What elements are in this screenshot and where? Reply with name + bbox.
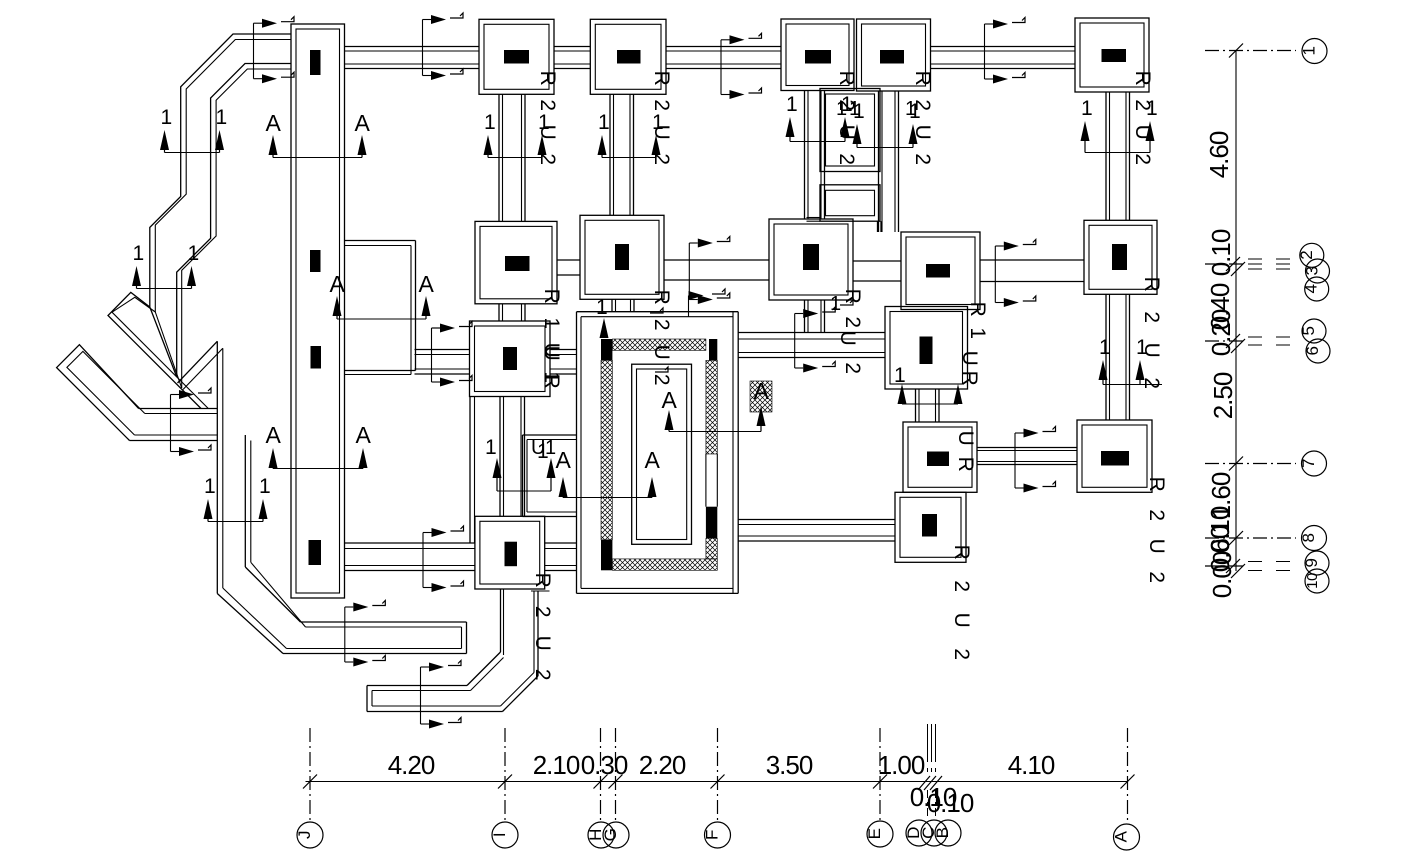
wall hook diagonals [467, 652, 501, 686]
grid line F vertical [717, 728, 719, 822]
grid bubble A [1114, 824, 1140, 850]
column strip mark 4 [309, 540, 322, 565]
svg-text:9: 9 [1302, 558, 1321, 567]
svg-text:2: 2 [650, 319, 673, 330]
wire finger wall upper [301, 621, 467, 623]
svg-text:2: 2 [950, 580, 973, 591]
svg-text:4.20: 4.20 [388, 750, 435, 780]
grid bubble 5 [1302, 319, 1326, 343]
section 1-1 pair below D3 [898, 384, 907, 404]
svg-text:2.20: 2.20 [639, 750, 686, 780]
svg-text:2: 2 [536, 153, 559, 164]
stair inner rect inner [637, 369, 687, 540]
section arrows on wall A3 west [431, 328, 433, 382]
column C2 outer [769, 219, 853, 300]
svg-text:J: J [295, 831, 314, 839]
svg-text:2: 2 [650, 374, 673, 385]
column B1 mark [617, 50, 641, 64]
svg-text:1: 1 [786, 93, 797, 116]
grid line 8 stub [1205, 537, 1296, 539]
grid tick G [609, 775, 623, 789]
svg-text:A: A [419, 271, 435, 297]
svg-text:3.50: 3.50 [766, 750, 813, 780]
svg-text:4.10: 4.10 [1008, 750, 1055, 780]
grid lines D C B cluster [927, 724, 929, 762]
wall hook corridor west [500, 589, 502, 652]
svg-text:2: 2 [1131, 99, 1154, 110]
stair hatch bottom band [612, 559, 717, 570]
svg-text:R: R [1140, 277, 1163, 292]
grid bubble D [906, 820, 932, 846]
grid line G vertical [615, 728, 617, 822]
wall A3 east to stair [550, 349, 577, 351]
wall C2 down to stair wall [804, 300, 806, 333]
svg-text:1: 1 [1081, 97, 1092, 120]
column E4 inner [1082, 425, 1147, 487]
grid bubble 8 [1302, 526, 1327, 551]
wall loop upper inner [826, 94, 875, 166]
svg-text:8: 8 [1299, 533, 1318, 542]
wall C1 down [804, 91, 806, 220]
section arrows on finger2 wall [420, 667, 422, 724]
column E2 inner [1089, 225, 1152, 289]
column A5 inner [480, 521, 540, 584]
wall A1 to B1 [554, 46, 590, 48]
svg-text:U: U [1140, 343, 1163, 358]
svg-text:R: R [531, 573, 554, 588]
stair hatch corner black NW [601, 339, 612, 360]
column D4 mark [927, 452, 949, 467]
svg-text:I: I [490, 833, 509, 837]
column A2 outer [475, 221, 557, 303]
wire zigzag outer wall upper [108, 34, 291, 409]
svg-text:U: U [1145, 539, 1168, 554]
svg-text:R: R [650, 71, 673, 86]
svg-text:1: 1 [905, 98, 916, 120]
grid bubble 4 [1305, 277, 1329, 301]
grid lines 2-3-4 cluster [1248, 258, 1262, 260]
wire checkmark inner wall [182, 69, 291, 388]
svg-text:2.50: 2.50 [1208, 372, 1238, 419]
grid bubble 2 [1300, 243, 1324, 267]
svg-text:2.10: 2.10 [533, 750, 580, 780]
svg-text:1: 1 [830, 293, 841, 315]
stair hatch corner black NE [709, 339, 717, 360]
svg-text:1: 1 [1300, 46, 1319, 55]
svg-text:U1: U1 [531, 437, 556, 459]
wall A2 to A3 [498, 304, 500, 321]
grid bubble 9 [1305, 551, 1329, 575]
svg-text:U: U [536, 125, 559, 140]
svg-text:R: R [540, 374, 563, 389]
grid ticks 9-10 [1226, 559, 1240, 573]
svg-text:R: R [650, 290, 673, 305]
column B2 inner [585, 220, 659, 294]
svg-text:R: R [536, 71, 559, 86]
wall loop lower outer [820, 185, 880, 221]
column B2 outer [580, 215, 664, 299]
grid line A vertical [1127, 728, 1129, 822]
grid line J vertical [309, 728, 311, 822]
svg-text:A: A [266, 110, 282, 136]
svg-text:1: 1 [894, 364, 905, 387]
grid line 1 stub [1205, 50, 1296, 52]
svg-text:U: U [531, 636, 554, 651]
column E4 outer [1077, 420, 1152, 492]
wall D4 to E4 [977, 447, 1077, 449]
column strip mark 1 [310, 50, 321, 75]
svg-text:1: 1 [484, 111, 495, 134]
wall E2 to E4 [1105, 294, 1107, 420]
column A2 mark [505, 256, 530, 271]
svg-text:6: 6 [1303, 346, 1322, 355]
svg-text:R: R [1145, 477, 1168, 492]
grid tick 1 [1229, 44, 1243, 58]
svg-text:2: 2 [536, 99, 559, 110]
grid bubble 1 [1302, 39, 1327, 64]
stair enclosure west wall [576, 312, 578, 594]
grid line E vertical [879, 728, 881, 822]
hatched pier with A mark [750, 381, 772, 412]
wall hook corridor east [533, 591, 535, 673]
svg-text:A: A [556, 447, 572, 473]
section arrows on wall strip-A5 [422, 533, 424, 588]
room south wall [523, 516, 578, 518]
svg-text:0.00: 0.00 [1207, 551, 1237, 598]
stair enclosure south wall [577, 592, 739, 594]
wall stair to D5 [738, 519, 895, 521]
column D5 mark [922, 514, 937, 537]
column D3 outer [885, 307, 968, 390]
svg-text:1: 1 [188, 242, 199, 265]
grid bubble B [935, 820, 961, 846]
column A1 outer [479, 19, 554, 94]
section arrows on wall B2-C2 [688, 243, 690, 300]
column strip inner [296, 29, 340, 593]
column D3 inner [890, 312, 963, 385]
svg-text:3: 3 [1303, 266, 1322, 275]
column E1 mark [1102, 49, 1127, 62]
svg-text:4.60: 4.60 [1204, 131, 1234, 178]
wire finger wall east cap [466, 622, 468, 654]
svg-text:2: 2 [650, 153, 673, 164]
grid tick A [1121, 775, 1135, 789]
section arrows at strip top wall [253, 23, 255, 78]
svg-text:A: A [645, 447, 661, 473]
wall B1 to C1 [666, 46, 781, 48]
column C1 inner [786, 24, 849, 86]
svg-text:A: A [356, 422, 372, 448]
section 1-1 pair on A corridor [493, 458, 502, 478]
wall B1 to B2 [609, 94, 611, 215]
section arrows on corridor wall [170, 395, 172, 452]
stair hatch west band [601, 360, 612, 540]
column A1 mark [504, 50, 529, 64]
grid bubble I [492, 822, 518, 848]
column C1 mark [805, 50, 831, 64]
svg-text:B: B [933, 827, 952, 838]
grid tick F [711, 775, 725, 789]
wire U-wall west pair [216, 341, 218, 593]
grid line 7 stub [1205, 463, 1296, 465]
grid tick H [594, 775, 608, 789]
wall A3 to A5 [499, 397, 501, 517]
section arrow at stair north [688, 296, 690, 318]
svg-text:1: 1 [161, 106, 172, 129]
stair east band gap line [705, 454, 707, 507]
column C2 inner [774, 224, 848, 295]
svg-text:F: F [703, 830, 722, 840]
svg-text:1: 1 [540, 317, 563, 328]
wire corridor walls to U-wall [139, 408, 218, 410]
svg-text:2: 2 [841, 362, 864, 373]
section arrow at A2 west [432, 327, 441, 329]
column strip outer [291, 24, 345, 598]
column B2 mark [615, 244, 629, 270]
column C1 outer [781, 19, 854, 91]
wire chevron brace inner [183, 348, 223, 389]
column D4 outer [903, 422, 977, 492]
column D2 mark [926, 264, 950, 278]
column D4 inner [908, 427, 972, 487]
column E4 mark [1101, 451, 1129, 466]
svg-text:1.00: 1.00 [878, 750, 925, 780]
svg-text:2: 2 [911, 153, 934, 164]
room north wall [523, 434, 578, 436]
wall loop lower inner [826, 190, 875, 215]
stair step mark 1 [650, 308, 663, 313]
svg-text:A: A [330, 271, 346, 297]
svg-text:2: 2 [841, 316, 864, 327]
wall B2 to C2 [664, 259, 769, 261]
svg-text:1: 1 [596, 296, 607, 319]
dimension line bottom [306, 781, 1128, 783]
grid bubble 10 [1305, 569, 1329, 593]
svg-text:1: 1 [259, 475, 270, 498]
column D2 inner [906, 237, 975, 305]
wall loop to C2-D2 [877, 221, 879, 232]
column D1 outer [857, 19, 931, 91]
svg-text:R: R [958, 371, 981, 386]
grid bubble E [867, 821, 893, 847]
wall D1 to E1 [931, 46, 1076, 48]
svg-text:1: 1 [485, 436, 496, 459]
column strip mark 2 [310, 250, 321, 272]
column A5 mark [505, 542, 518, 567]
svg-text:U: U [650, 345, 673, 360]
svg-text:R: R [966, 302, 989, 317]
wall loop joint lines [807, 217, 821, 219]
stair hatch top band [612, 339, 706, 350]
svg-text:5: 5 [1299, 326, 1318, 335]
svg-text:G: G [601, 829, 620, 842]
svg-text:1: 1 [1099, 336, 1110, 359]
grid bubble J [297, 822, 323, 848]
svg-text:R: R [540, 289, 563, 304]
column B1 inner [595, 24, 661, 89]
stair hatch east black [706, 507, 717, 539]
column E2 outer [1084, 220, 1157, 294]
wire finger wall lower [287, 648, 462, 650]
column D5 inner [900, 497, 961, 557]
svg-text:10: 10 [1304, 573, 1321, 589]
grid tick I [498, 775, 512, 789]
svg-text:A: A [266, 422, 282, 448]
svg-text:R: R [954, 457, 977, 472]
wall A3 west [415, 349, 470, 351]
svg-text:2: 2 [950, 648, 973, 659]
column E2 mark [1112, 244, 1127, 270]
svg-text:2: 2 [531, 669, 554, 680]
column A3 mark [503, 347, 517, 370]
svg-text:U: U [836, 331, 859, 346]
svg-text:A: A [662, 387, 678, 413]
svg-text:1: 1 [966, 327, 989, 338]
column D3 mark [920, 337, 933, 365]
dimension line right vertical [1235, 51, 1237, 572]
wire diagonal bar outer [57, 345, 139, 441]
grid ticks 2-3-4 [1226, 257, 1240, 271]
grid tick E [873, 775, 887, 789]
svg-text:2: 2 [1131, 153, 1154, 164]
wire elbow diagonals to finger [217, 594, 283, 654]
column A5 outer [475, 516, 545, 589]
svg-text:2: 2 [1145, 509, 1168, 520]
svg-text:U: U [911, 125, 934, 140]
wall A2 to B2 [557, 259, 580, 261]
svg-text:2: 2 [1145, 571, 1168, 582]
grid bubble G [603, 822, 629, 848]
svg-text:2: 2 [1297, 251, 1316, 260]
grid tick 7 [1229, 457, 1243, 471]
grid bubble H [588, 822, 614, 848]
wall room north [345, 370, 416, 372]
column B1 outer [590, 19, 666, 94]
svg-text:U: U [1131, 125, 1154, 140]
room west wall [522, 435, 524, 517]
column E1 outer [1075, 18, 1149, 92]
svg-text:0.10: 0.10 [927, 788, 974, 818]
column D1 mark [880, 50, 904, 64]
section arrows on wall B1-C1 [720, 40, 722, 95]
svg-text:4: 4 [1302, 284, 1321, 293]
svg-text:0.10: 0.10 [1206, 229, 1236, 276]
svg-text:2: 2 [1140, 311, 1163, 322]
wall finger2 north [367, 685, 467, 687]
grid lines 9-10 cluster [1248, 561, 1262, 563]
grid ticks 5-6 [1226, 334, 1240, 348]
svg-text:2: 2 [835, 153, 858, 164]
svg-text:A: A [1112, 830, 1131, 842]
section arrows on wall strip-A1 [422, 20, 424, 76]
grid tick J [303, 775, 317, 789]
wall stair to D3 [738, 332, 885, 334]
wall B2 to stair [611, 299, 613, 311]
section arrows on wall stair-D3 [794, 314, 796, 369]
svg-text:U: U [954, 431, 977, 446]
column D2 outer [901, 232, 980, 310]
wall room east [469, 397, 471, 544]
wall strip east corridor top [345, 240, 416, 242]
wall D2 to E2 [980, 259, 1084, 261]
wire checkmark outer wall [177, 64, 291, 377]
grid lines 5-6 cluster [1248, 336, 1262, 338]
stair enclosure north wall [577, 311, 739, 313]
stair step mark 2 [655, 367, 668, 372]
svg-text:R: R [911, 71, 934, 86]
wall D3 to D4 [915, 389, 917, 422]
column strip mark 3 [311, 346, 322, 369]
wall finger2 south [372, 705, 501, 707]
wire diagonal bar inner [67, 351, 145, 435]
wall D1 to D2 [878, 91, 880, 232]
svg-text:U: U [650, 125, 673, 140]
svg-text:1: 1 [598, 111, 609, 134]
grid bubble 6 [1306, 339, 1330, 363]
svg-text:A: A [355, 110, 371, 136]
svg-text:U: U [950, 613, 973, 628]
stair enclosure east wall [732, 312, 734, 594]
column C2 mark [803, 244, 819, 270]
stair inner rect outer [632, 364, 692, 544]
grid bubble F [705, 822, 731, 848]
stair hatch east band upper [706, 360, 717, 454]
svg-text:R: R [1131, 71, 1154, 86]
stair hatch east band lower [706, 538, 717, 559]
wall hook jog [531, 590, 550, 592]
svg-text:E: E [865, 828, 884, 839]
wire U-wall east pair [244, 435, 246, 567]
column A3 outer [470, 321, 551, 397]
grid ticks D C B [918, 776, 930, 790]
svg-text:1: 1 [204, 475, 215, 498]
wall finger2 west cap [366, 686, 368, 712]
section arrows on wall D1-E1 [984, 24, 986, 79]
svg-text:U: U [540, 346, 563, 361]
grid tick 8 [1229, 531, 1243, 545]
wall corridor east side [415, 241, 417, 371]
svg-text:2: 2 [1140, 377, 1163, 388]
grid bubble C [921, 820, 947, 846]
wall strip to A1 [345, 46, 480, 48]
svg-text:R: R [950, 545, 973, 560]
wall A5 to stair [545, 542, 577, 544]
svg-text:2: 2 [531, 606, 554, 617]
svg-text:1: 1 [849, 98, 860, 120]
wall strip to A5 [345, 542, 475, 544]
grid line H vertical [600, 728, 602, 822]
column D5 outer [895, 492, 966, 562]
wire steep diagonal pair to vertex [150, 307, 177, 377]
svg-text:1: 1 [216, 106, 227, 129]
wire zigzag inner wall upper [112, 40, 291, 409]
column A1 inner [484, 24, 549, 89]
grid line I vertical [504, 728, 506, 822]
svg-text:0.30: 0.30 [581, 750, 628, 780]
column D1 inner [862, 24, 926, 86]
wall A1 to A2 [498, 94, 500, 221]
wall loop upper outer [820, 89, 880, 172]
column A3 inner [475, 326, 546, 392]
grid bubble 7 [1302, 451, 1327, 476]
wire chevron brace outer [178, 341, 218, 383]
svg-text:0.20: 0.20 [1206, 309, 1236, 356]
column E1 inner [1080, 23, 1144, 87]
wall E1 to E2 [1105, 92, 1107, 220]
wall C2 to D2 [853, 260, 901, 262]
svg-text:7: 7 [1299, 459, 1318, 468]
svg-text:U: U [835, 125, 858, 140]
